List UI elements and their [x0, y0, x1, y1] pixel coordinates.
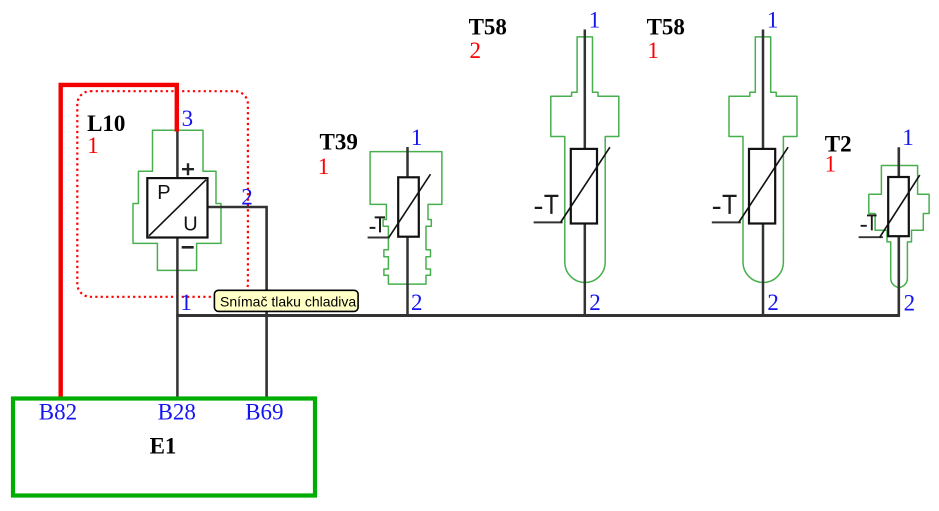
svg-text:1: 1: [825, 152, 837, 177]
svg-text:1: 1: [767, 8, 779, 33]
svg-text:Snímač tlaku chladiva: Snímač tlaku chladiva: [220, 294, 356, 310]
svg-text:B69: B69: [245, 400, 283, 425]
svg-text:2: 2: [767, 290, 779, 315]
svg-text:1: 1: [87, 133, 99, 158]
svg-text:U: U: [183, 213, 197, 235]
svg-text:E1: E1: [150, 433, 177, 458]
svg-text:T39: T39: [320, 129, 358, 154]
svg-text:B28: B28: [158, 400, 196, 425]
svg-text:2: 2: [589, 290, 601, 315]
svg-text:1: 1: [902, 125, 914, 150]
svg-text:1: 1: [647, 38, 659, 63]
svg-text:T58: T58: [469, 14, 507, 39]
svg-text:2: 2: [241, 184, 253, 209]
svg-text:1: 1: [589, 8, 601, 33]
svg-text:2: 2: [904, 291, 916, 316]
svg-text:2: 2: [470, 38, 482, 63]
svg-text:1: 1: [411, 125, 423, 150]
svg-text:2: 2: [411, 290, 423, 315]
svg-text:3: 3: [182, 106, 194, 131]
svg-text:1: 1: [318, 154, 330, 179]
svg-text:P: P: [157, 182, 170, 204]
svg-text:B82: B82: [39, 400, 77, 425]
svg-text:T58: T58: [647, 14, 685, 39]
svg-text:1: 1: [180, 290, 192, 315]
